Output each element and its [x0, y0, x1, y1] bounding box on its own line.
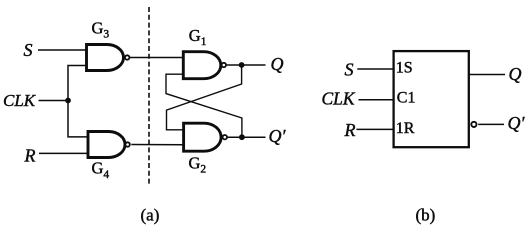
feedback wire Q' to G1 lower input — [166, 74, 242, 137]
wire S to G3 — [38, 49, 87, 51]
wire R to G4 — [39, 152, 89, 154]
nand gate G4 — [88, 132, 130, 158]
svg-text:(a): (a) — [141, 206, 160, 225]
svg-text:CLK: CLK — [3, 91, 37, 110]
node CLK junction — [65, 98, 71, 104]
wire CLK to junction — [39, 100, 69, 102]
wire CLK branch to G3 lower input and G4 upper input — [68, 66, 89, 137]
svg-text:Q: Q — [509, 64, 522, 84]
svg-text:(b): (b) — [416, 206, 436, 225]
bubble on Q' output — [471, 122, 476, 127]
nand gate G2 — [184, 123, 227, 151]
svg-text:1R: 1R — [396, 120, 415, 137]
wire Q' output — [478, 123, 504, 125]
wire G3 output to G1 — [130, 57, 184, 59]
wire G4 output to G2 — [131, 144, 183, 146]
svg-text:Q′: Q′ — [508, 113, 526, 133]
wire CLK — [359, 99, 394, 101]
wire S — [357, 68, 393, 70]
wire G1 output to Q — [227, 64, 266, 66]
svg-text:R: R — [344, 120, 356, 140]
svg-text:S: S — [345, 60, 354, 80]
feedback wire Q to G2 upper input — [167, 65, 242, 130]
node Q — [239, 62, 245, 68]
wire Q output — [469, 74, 505, 76]
wire R — [356, 128, 393, 130]
nand gate G1 — [183, 52, 226, 79]
dashed partition line — [148, 7, 150, 186]
node Q' — [239, 134, 245, 140]
svg-text:Q: Q — [271, 54, 284, 74]
svg-text:Q′: Q′ — [269, 126, 287, 146]
nand gate G3 — [87, 45, 130, 71]
wire G2 output to Q' — [227, 136, 265, 138]
svg-text:C1: C1 — [397, 90, 416, 107]
latch symbol box — [394, 51, 469, 147]
svg-text:S: S — [24, 40, 33, 60]
svg-text:R: R — [24, 145, 36, 165]
svg-text:CLK: CLK — [322, 88, 356, 108]
svg-text:1S: 1S — [396, 59, 413, 76]
